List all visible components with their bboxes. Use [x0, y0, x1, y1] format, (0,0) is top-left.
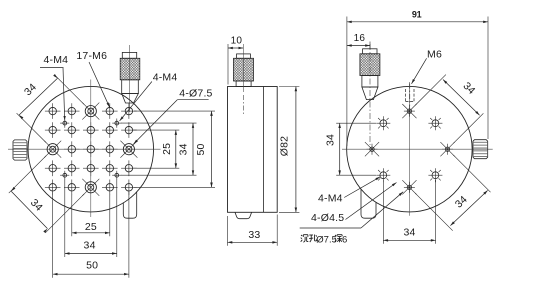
back bottom dim 34: [383, 239, 435, 241]
M6 hole grid (1,1): [106, 165, 113, 172]
dia4.5 hole back bottom: [407, 185, 411, 189]
svg-text:25: 25: [85, 221, 97, 233]
M6 hole grid (-1,-2): [68, 107, 75, 114]
M6 hole grid (0,1): [87, 165, 94, 172]
svg-text:Ø82: Ø82: [279, 136, 291, 156]
ext lines TL diag: [17, 113, 46, 142]
bottom dim 50 front: [53, 273, 129, 275]
svg-text:34: 34: [84, 239, 96, 251]
M6 hole grid (2,2): [125, 184, 132, 191]
dia4.5 hole back left: [370, 147, 374, 151]
M6 hole grid (0,0): [87, 146, 94, 153]
M4 hole front BL: [63, 173, 67, 177]
M6 hole grid (1,2): [106, 184, 113, 191]
front view vertical centerline: [90, 80, 92, 218]
M6 hole grid (2,-1): [125, 126, 132, 133]
front diagonal dim 34 bottom-left: [11, 191, 47, 228]
svg-text:50: 50: [195, 143, 207, 155]
M4 hole back TR: [432, 120, 439, 127]
back vertical centerline: [408, 82, 410, 216]
back right knob: [473, 140, 488, 159]
dim 10 side: [228, 47, 243, 49]
back top knob: [369, 44, 371, 145]
M6 hole grid (-1,1): [68, 165, 75, 172]
ext lines BL diag: [9, 156, 46, 193]
svg-text:4-Ø4.5: 4-Ø4.5: [311, 212, 344, 224]
back diag dim 34 top-right: [443, 80, 480, 116]
back left dim 34: [339, 123, 341, 175]
svg-text:M6: M6: [427, 48, 442, 60]
svg-text:4-Ø7.5: 4-Ø7.5: [179, 87, 212, 99]
svg-text:33: 33: [248, 229, 260, 241]
svg-text:34: 34: [324, 134, 336, 146]
front bottom post (screw tip): [123, 192, 136, 218]
M4 hole back TL: [380, 120, 387, 127]
M6 hole grid (-1,2): [68, 184, 75, 191]
front top knob (vertical adjustment screw): [129, 45, 131, 112]
M6 hole grid (-2,2): [49, 184, 56, 191]
front left knob (horizontal adjustment screw): [13, 140, 27, 160]
back diag dim 34 bottom-right: [450, 190, 487, 225]
back view circular plate: [347, 86, 473, 212]
svg-text:34: 34: [178, 143, 190, 155]
dim 33 side: [228, 241, 278, 243]
svg-text:Ø7.5: Ø7.5: [316, 235, 337, 246]
M4 hole back BL: [380, 172, 387, 179]
M6 hole grid (-1,-1): [68, 126, 75, 133]
M6 hole grid (-2,1): [49, 165, 56, 172]
dim dia82 side: [295, 87, 297, 213]
back horizontal centerline: [342, 148, 493, 150]
M4 hole back BR: [432, 172, 439, 179]
svg-text:34: 34: [403, 226, 415, 238]
hidden M6 hole top rim: [405, 89, 407, 102]
M4 hole front BR: [115, 173, 119, 177]
M4 hole front TR: [115, 121, 119, 125]
right dim 34 front: [192, 123, 194, 175]
svg-text:6: 6: [342, 235, 347, 246]
bottom dim 34 front: [65, 252, 117, 254]
counterbore hole 7.5 left: [47, 144, 58, 155]
M6 hole grid (-2,-1): [49, 126, 56, 133]
right dim 50 front: [211, 111, 213, 187]
hanzi shen: [335, 235, 336, 236]
M6 hole grid (1,-1): [106, 126, 113, 133]
M6 hole grid (2,-2): [125, 107, 132, 114]
side view knob: [237, 54, 251, 58]
side view plate split line: [262, 87, 264, 213]
right dim 25 front: [175, 130, 177, 168]
svg-text:50: 50: [86, 259, 98, 271]
front view horizontal centerline: [8, 148, 161, 150]
M6 hole grid (-2,-2): [49, 107, 56, 114]
hanzi chen: [301, 235, 302, 236]
hanzi kong: [309, 234, 313, 236]
svg-text:4-M4: 4-M4: [44, 54, 69, 66]
svg-text:4-M4: 4-M4: [153, 71, 178, 83]
M4 hole front TL: [63, 121, 67, 125]
M6 hole grid (1,-2): [106, 107, 113, 114]
svg-text:91: 91: [412, 9, 422, 19]
front view: circular plate body: [28, 86, 154, 212]
counterbore hole 7.5 right: [123, 144, 134, 155]
dim 91 top: [347, 21, 488, 23]
dia4.5 hole back right: [445, 147, 449, 151]
counterbore hole 7.5 bottom: [85, 182, 96, 193]
back bottom post: [361, 189, 376, 218]
svg-text:25: 25: [161, 143, 173, 155]
bottom dim 25 front: [72, 232, 110, 234]
side knob axis: [242, 44, 244, 92]
M6 hole grid (1,0): [106, 146, 113, 153]
svg-text:4-M4: 4-M4: [318, 192, 343, 204]
counterbore hole 7.5 top: [85, 106, 96, 117]
side view body: [228, 87, 278, 213]
M6 hole grid (-1,0): [68, 146, 75, 153]
M6 hole grid (2,1): [125, 165, 132, 172]
svg-text:10: 10: [231, 35, 243, 46]
side bottom foot: [235, 212, 252, 218]
svg-text:17-M6: 17-M6: [76, 50, 107, 62]
front diagonal dim 34 top-left: [19, 78, 57, 115]
dia4.5 hole back top: [407, 109, 411, 113]
dim 16 top: [347, 45, 370, 47]
label counterbore note (Chinese): [300, 227, 361, 229]
M6 hole grid (0,-1): [87, 126, 94, 133]
svg-text:16: 16: [354, 33, 366, 44]
